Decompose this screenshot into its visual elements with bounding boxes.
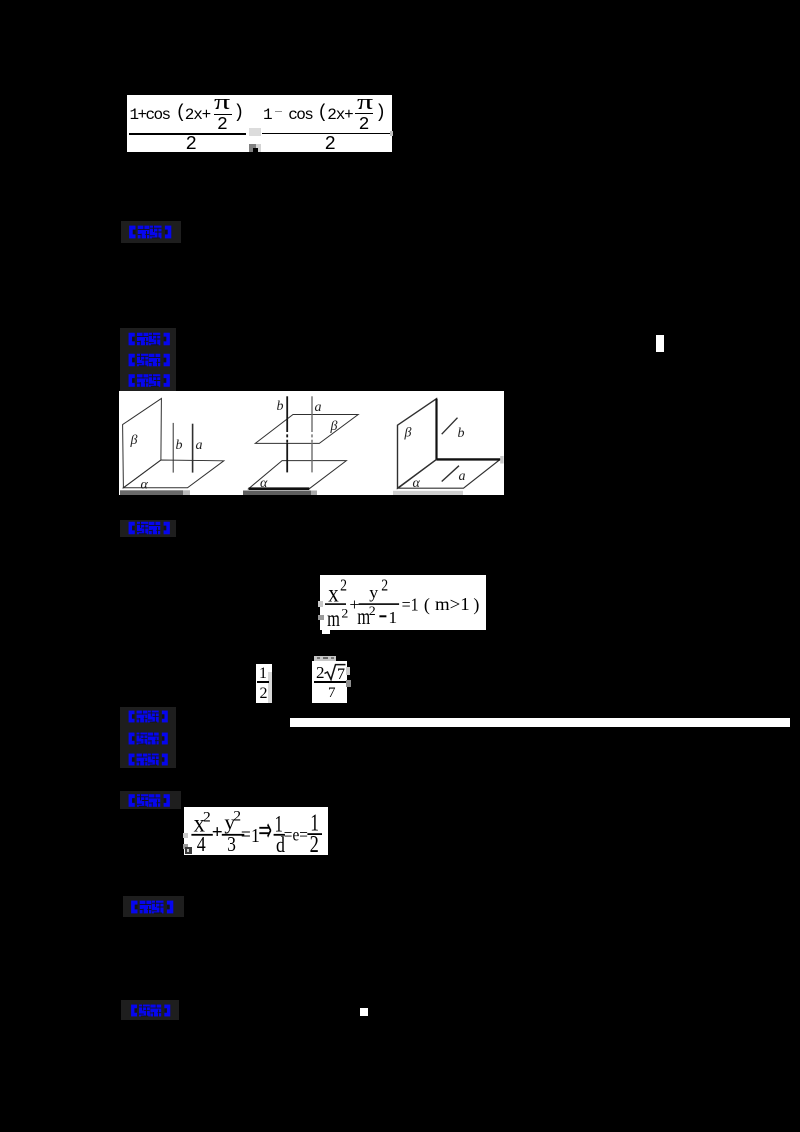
figure 1: line b bbox=[172, 423, 174, 473]
ellipse equation glyphs bbox=[318, 574, 490, 634]
labels bbox=[130, 399, 466, 493]
svg-text:2: 2 bbox=[369, 604, 376, 618]
svg-text:b: b bbox=[458, 426, 465, 441]
svg-text:α: α bbox=[413, 476, 421, 491]
figure 3: plane beta (vertical) bbox=[398, 399, 437, 489]
gray handle squares between fractions bbox=[249, 128, 261, 136]
fraction 1 numerator bbox=[130, 107, 170, 123]
svg-text:+: + bbox=[212, 822, 223, 843]
svg-text:=: = bbox=[241, 824, 251, 846]
svg-text:2: 2 bbox=[341, 606, 348, 620]
svg-text:3: 3 bbox=[227, 834, 236, 857]
figure 2: line b (dark) bbox=[286, 396, 288, 429]
pi over 2 (fraction 1) bbox=[214, 91, 230, 113]
figure 3: line a segment bbox=[442, 466, 459, 482]
svg-text:1: 1 bbox=[388, 607, 397, 627]
svg-text:2: 2 bbox=[203, 809, 211, 826]
figure 3: plane alpha (floor) bbox=[398, 459, 500, 488]
svg-text:m: m bbox=[327, 606, 340, 631]
svg-text:b: b bbox=[176, 438, 183, 453]
bottom equation glyphs bbox=[183, 806, 333, 858]
svg-text:α: α bbox=[260, 476, 268, 491]
svg-text:2: 2 bbox=[233, 808, 241, 825]
svg-text:=e=: =e= bbox=[284, 824, 308, 845]
svg-text:m>1: m>1 bbox=[435, 594, 470, 615]
figure 2: lower plane alpha bbox=[249, 461, 347, 489]
svg-text:=1: =1 bbox=[402, 595, 419, 615]
svg-text:4: 4 bbox=[197, 834, 206, 856]
artifact strip above box bbox=[314, 656, 336, 661]
figure 2: upper plane beta bbox=[255, 415, 358, 444]
fraction 2 bar bbox=[262, 133, 392, 135]
figure 1: plane beta (vertical) bbox=[123, 398, 162, 487]
svg-text:2: 2 bbox=[340, 576, 347, 595]
svg-text:β: β bbox=[130, 433, 138, 448]
svg-text:a: a bbox=[315, 400, 322, 415]
pi over 2 (fraction 2) bbox=[357, 91, 373, 113]
svg-text:β: β bbox=[330, 419, 338, 434]
svg-text:): ) bbox=[473, 594, 479, 615]
fraction 2 numerator bbox=[263, 107, 273, 123]
fraction 1 denominator 2 bbox=[186, 135, 197, 154]
gray handles right bbox=[346, 667, 350, 675]
svg-text:a: a bbox=[196, 438, 203, 453]
svg-text:α: α bbox=[141, 478, 149, 493]
svg-text:2: 2 bbox=[381, 576, 388, 595]
svg-text:2: 2 bbox=[310, 831, 319, 858]
svg-text:β: β bbox=[404, 426, 412, 441]
fraction 2 denominator 2 bbox=[325, 135, 336, 154]
figure 2: line a (gray) bbox=[311, 396, 313, 429]
svg-text:y: y bbox=[369, 583, 378, 601]
figure 1: line a bbox=[192, 424, 194, 473]
svg-text:a: a bbox=[459, 469, 466, 484]
figure 1: plane alpha (floor) bbox=[123, 460, 223, 488]
figure 3: line b segment bbox=[442, 418, 458, 435]
2 sqrt 7 bbox=[316, 664, 325, 681]
shadows under figures bbox=[120, 490, 183, 495]
svg-text:b: b bbox=[277, 399, 284, 414]
svg-text:⇒: ⇒ bbox=[258, 811, 272, 849]
svg-text:(: ( bbox=[424, 594, 430, 615]
figure 2: alpha thick bottom edge bbox=[249, 487, 310, 490]
fraction 1 bar bbox=[129, 133, 246, 135]
